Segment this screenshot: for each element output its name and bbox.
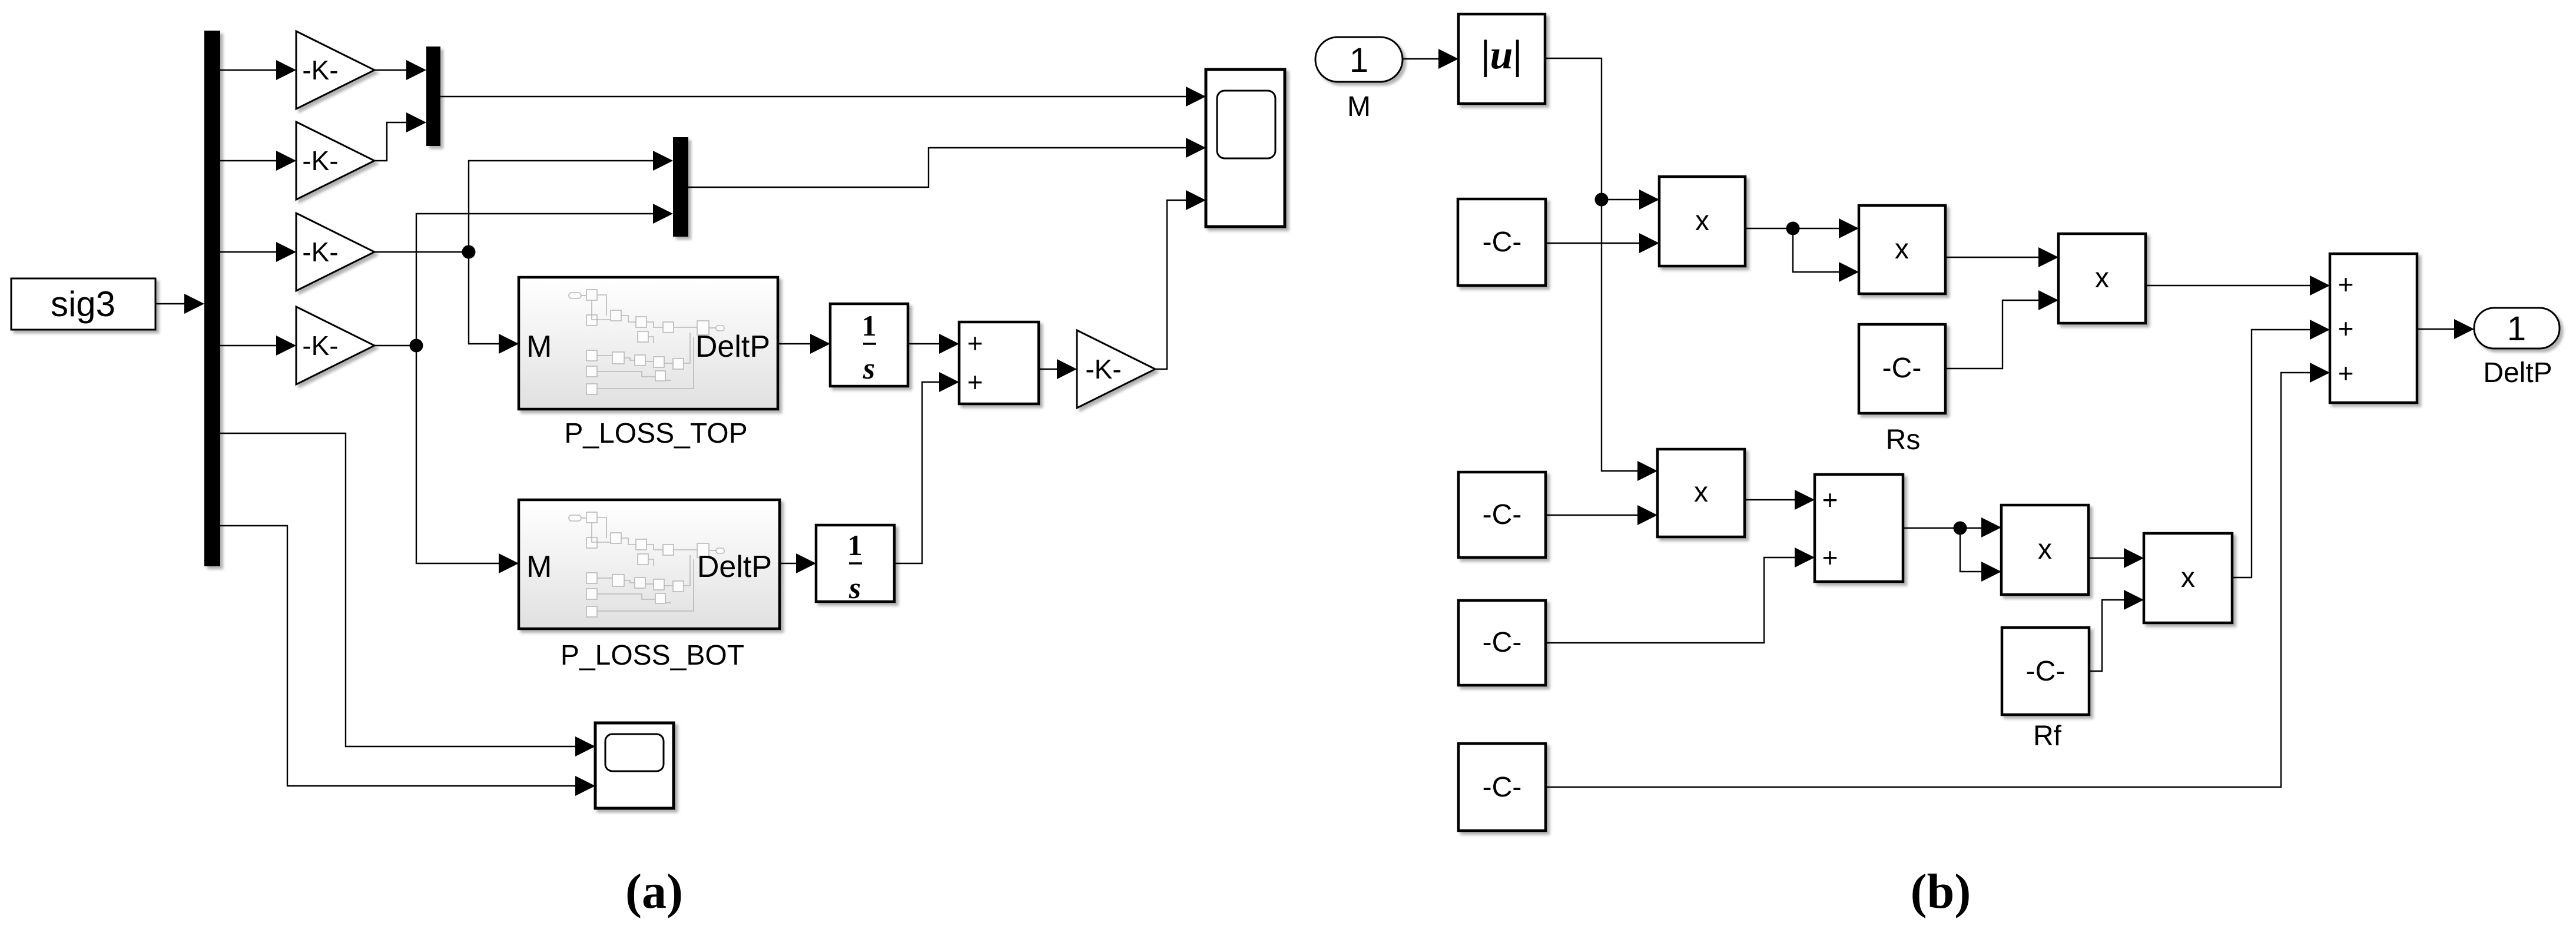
wire junction down to P_LOSS_BOT M input (416, 346, 515, 563)
sum3 block (2330, 254, 2417, 403)
svg-text:-C-: -C- (1483, 227, 1522, 258)
svg-text:DeltP: DeltP (697, 550, 772, 584)
svg-text:1: 1 (2507, 310, 2526, 348)
svg-text:M: M (1347, 91, 1371, 122)
sum1 block (959, 322, 1039, 404)
wire product4 to sum3 input1 (2146, 285, 2326, 286)
product3 x (1657, 449, 1745, 537)
wire junction down to product5 input2 (1960, 528, 1997, 572)
svg-text:x: x (1694, 477, 1708, 508)
wire junction up to mux2 input1 (469, 161, 669, 252)
scope1 block (1206, 69, 1285, 227)
svg-text:x: x (2095, 263, 2109, 294)
wire bus to gain G3 (220, 251, 292, 253)
mux1 bar (426, 47, 440, 146)
product4 x (2058, 234, 2146, 323)
svg-text:-C-: -C- (1882, 353, 1922, 384)
gain G2 -K- (296, 122, 374, 200)
product2 x (1859, 205, 1945, 294)
svg-text:s: s (848, 572, 861, 605)
svg-text:-K-: -K- (302, 145, 338, 176)
wire sig3 to bus (155, 303, 200, 304)
wire bus to gain G4 (220, 345, 292, 346)
svg-text:M: M (526, 550, 552, 584)
svg-text:-K-: -K- (302, 237, 338, 267)
integrator1 1/s (830, 304, 908, 386)
wire G1 to mux1 (374, 69, 422, 71)
constant -C- C3 (1458, 600, 1546, 685)
wire integrator1 to sum1 (908, 343, 955, 344)
wire Rf to product6 input2 (2089, 600, 2140, 671)
svg-text:x: x (1695, 205, 1709, 237)
svg-text:+: + (2338, 269, 2354, 300)
svg-text:|u|: |u| (1481, 32, 1522, 78)
source block sig3 (11, 278, 155, 330)
wire P_LOSS_BOT to integrator2 (780, 563, 812, 564)
svg-text:1: 1 (862, 309, 877, 342)
svg-text:s: s (863, 352, 875, 386)
svg-text:1: 1 (1350, 41, 1368, 79)
abs block |u| (1458, 14, 1545, 104)
wire C4 to sum3 input3 (1546, 373, 2326, 787)
wire C1 to product1 input2 (1546, 243, 1655, 244)
svg-text:+: + (1822, 542, 1838, 573)
subsystem P_LOSS_BOT (519, 500, 780, 629)
integrator2 1/s (816, 525, 894, 602)
svg-text:Rs: Rs (1886, 424, 1921, 456)
svg-text:sig3: sig3 (51, 284, 115, 324)
svg-text:-C-: -C- (1483, 499, 1522, 530)
wire junction to product1 input1 (1602, 199, 1655, 200)
wire inport to abs (1403, 58, 1454, 59)
svg-text:x: x (2181, 562, 2195, 593)
wire sum1 to gain G5 (1039, 369, 1073, 370)
gain G1 -K- (296, 31, 374, 109)
wire sum2 to junction (1903, 527, 1997, 529)
junction on abs output (1595, 193, 1609, 207)
svg-text:DeltP: DeltP (695, 330, 770, 364)
wire product1 to product2 input1 (1745, 228, 1855, 229)
wire bus to gain G2 (220, 160, 292, 161)
svg-text:-C-: -C- (2026, 656, 2066, 687)
mux2 bar (673, 137, 688, 237)
wire mux1 to scope1 input1 (440, 96, 1202, 97)
gain G4 -K- (296, 307, 374, 384)
junction on sum2 output (1954, 522, 1967, 535)
wire abs down to product3 input1 (1545, 58, 1653, 471)
bus selector bar (204, 31, 220, 566)
svg-text:M: M (526, 330, 552, 364)
wire junction up to mux2 input2 (416, 214, 669, 346)
svg-text:1: 1 (848, 529, 863, 562)
wire product3 to sum2 input1 (1745, 499, 1811, 500)
wire bus tap to scope2 input2 (220, 526, 591, 786)
svg-text:-C-: -C- (1483, 627, 1522, 658)
inport 1 M (1315, 37, 1403, 82)
constant -C- C1 (1458, 199, 1546, 286)
wire bus to gain G1 (220, 69, 292, 71)
svg-text:-K-: -K- (302, 55, 338, 85)
wire G3 to junction (374, 251, 469, 253)
constant -C- C2 (1458, 472, 1546, 557)
svg-text:+: + (2338, 313, 2354, 344)
svg-text:x: x (2038, 534, 2052, 565)
svg-text:(a): (a) (625, 864, 683, 919)
wire integrator2 to sum1 input2 (894, 382, 955, 563)
svg-text:+: + (1822, 484, 1838, 515)
product1 x (1659, 177, 1745, 266)
junction on G4 output (410, 339, 423, 353)
svg-text:+: + (2338, 358, 2354, 389)
wire sum3 to outport (2417, 328, 2470, 330)
constant -C- Rs (1859, 324, 1945, 413)
product6 x (2144, 533, 2232, 623)
wire P_LOSS_TOP to integrator1 (778, 343, 826, 344)
constant -C- Rf (2002, 628, 2089, 715)
wire bus tap to scope2 input1 (220, 433, 591, 746)
wire junction down to product2 input2 (1793, 228, 1855, 272)
subsystem P_LOSS_TOP (519, 277, 778, 409)
constant -C- C4 (1458, 744, 1546, 831)
sum2 block (1815, 474, 1903, 582)
gain G5 -K- (1077, 330, 1155, 408)
wire G4 to junction (374, 345, 416, 346)
wire C3 to sum2 input2 (1546, 557, 1811, 643)
wire Rs to product4 input2 (1945, 300, 2054, 369)
svg-text:x: x (1895, 234, 1909, 265)
svg-text:(b): (b) (1911, 864, 1971, 919)
svg-text:DeltP: DeltP (2483, 357, 2552, 389)
wire G5 to scope1 input3 (1154, 200, 1202, 369)
svg-text:P_LOSS_TOP: P_LOSS_TOP (564, 418, 747, 449)
gain G3 -K- (296, 213, 374, 291)
wire product5 to product6 input1 (2088, 557, 2140, 559)
product5 x (2001, 505, 2088, 595)
svg-text:-K-: -K- (302, 330, 338, 361)
wire G2 to mux1 (374, 122, 422, 161)
svg-text:-C-: -C- (1483, 772, 1522, 803)
wire junction down to P_LOSS_TOP M input (469, 252, 515, 344)
wire product6 up to sum3 input2 (2232, 330, 2326, 577)
svg-text:-K-: -K- (1085, 354, 1121, 384)
svg-text:+: + (967, 367, 983, 397)
scope2 block (595, 723, 674, 808)
wire C2 to product3 input2 (1546, 515, 1653, 516)
svg-text:Rf: Rf (2033, 721, 2062, 752)
junction on product1 output (1786, 222, 1800, 235)
wire product2 to product4 input1 (1945, 257, 2054, 258)
svg-text:+: + (967, 328, 983, 359)
outport 1 DeltP (2474, 308, 2560, 349)
svg-text:P_LOSS_BOT: P_LOSS_BOT (561, 640, 744, 671)
wire mux2 to scope1 input2 (688, 148, 1202, 187)
junction on G3 output (462, 245, 476, 259)
